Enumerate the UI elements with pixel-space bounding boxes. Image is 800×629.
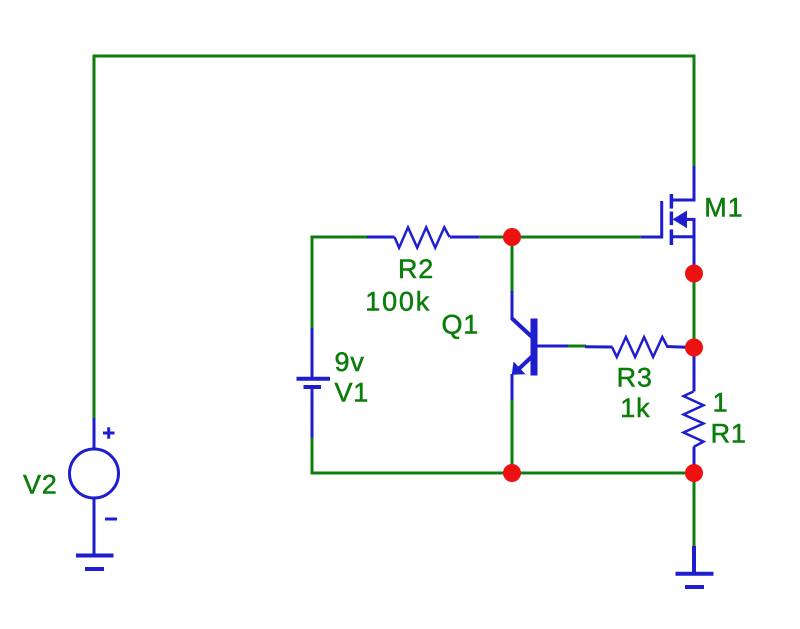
svg-text:R1: R1	[711, 418, 747, 448]
wire bottom rail	[312, 437, 694, 473]
wire node A down to Q1 collector	[511, 237, 514, 292]
battery V1	[297, 328, 331, 438]
junction node R3/R1	[685, 339, 703, 357]
svg-text:Q1: Q1	[442, 310, 480, 340]
wire top horizontal V2+ to M1 drain	[94, 56, 694, 418]
wire battery left branch: top to R2 and down to battery + pin	[312, 237, 368, 330]
svg-text:R3: R3	[617, 362, 653, 392]
resistor R3	[585, 337, 694, 357]
voltage source V2	[70, 418, 119, 554]
wire Q1 emitter down to bottom rail	[511, 399, 514, 473]
wire node A to M1 gate	[512, 236, 641, 239]
wire M1 source node to R3 node	[693, 273, 696, 348]
transistor Q1	[512, 291, 569, 400]
wire R2 right lead to node A	[478, 236, 512, 239]
wire R1 bottom node to ground stem	[693, 473, 696, 547]
junction node R1/rail/ground	[685, 464, 703, 482]
svg-text:100k: 100k	[365, 287, 431, 317]
junction node A (R2/gate/Q1 collector)	[503, 228, 521, 246]
ground under V2	[76, 556, 114, 570]
svg-text:1k: 1k	[620, 393, 650, 423]
junction node M1 source	[685, 265, 703, 283]
svg-text:M1: M1	[704, 193, 743, 223]
svg-text:1: 1	[713, 387, 729, 417]
mosfet M1	[641, 166, 694, 273]
junction node emitter/rail	[503, 464, 521, 482]
wire Q1 base to R3	[567, 345, 586, 348]
svg-text:V1: V1	[335, 377, 370, 407]
resistor R1	[684, 348, 704, 473]
ground bottom right	[676, 546, 714, 587]
resistor R2	[367, 227, 479, 247]
svg-text:V2: V2	[23, 470, 58, 500]
svg-text:R2: R2	[398, 254, 434, 284]
svg-text:9v: 9v	[335, 347, 365, 377]
